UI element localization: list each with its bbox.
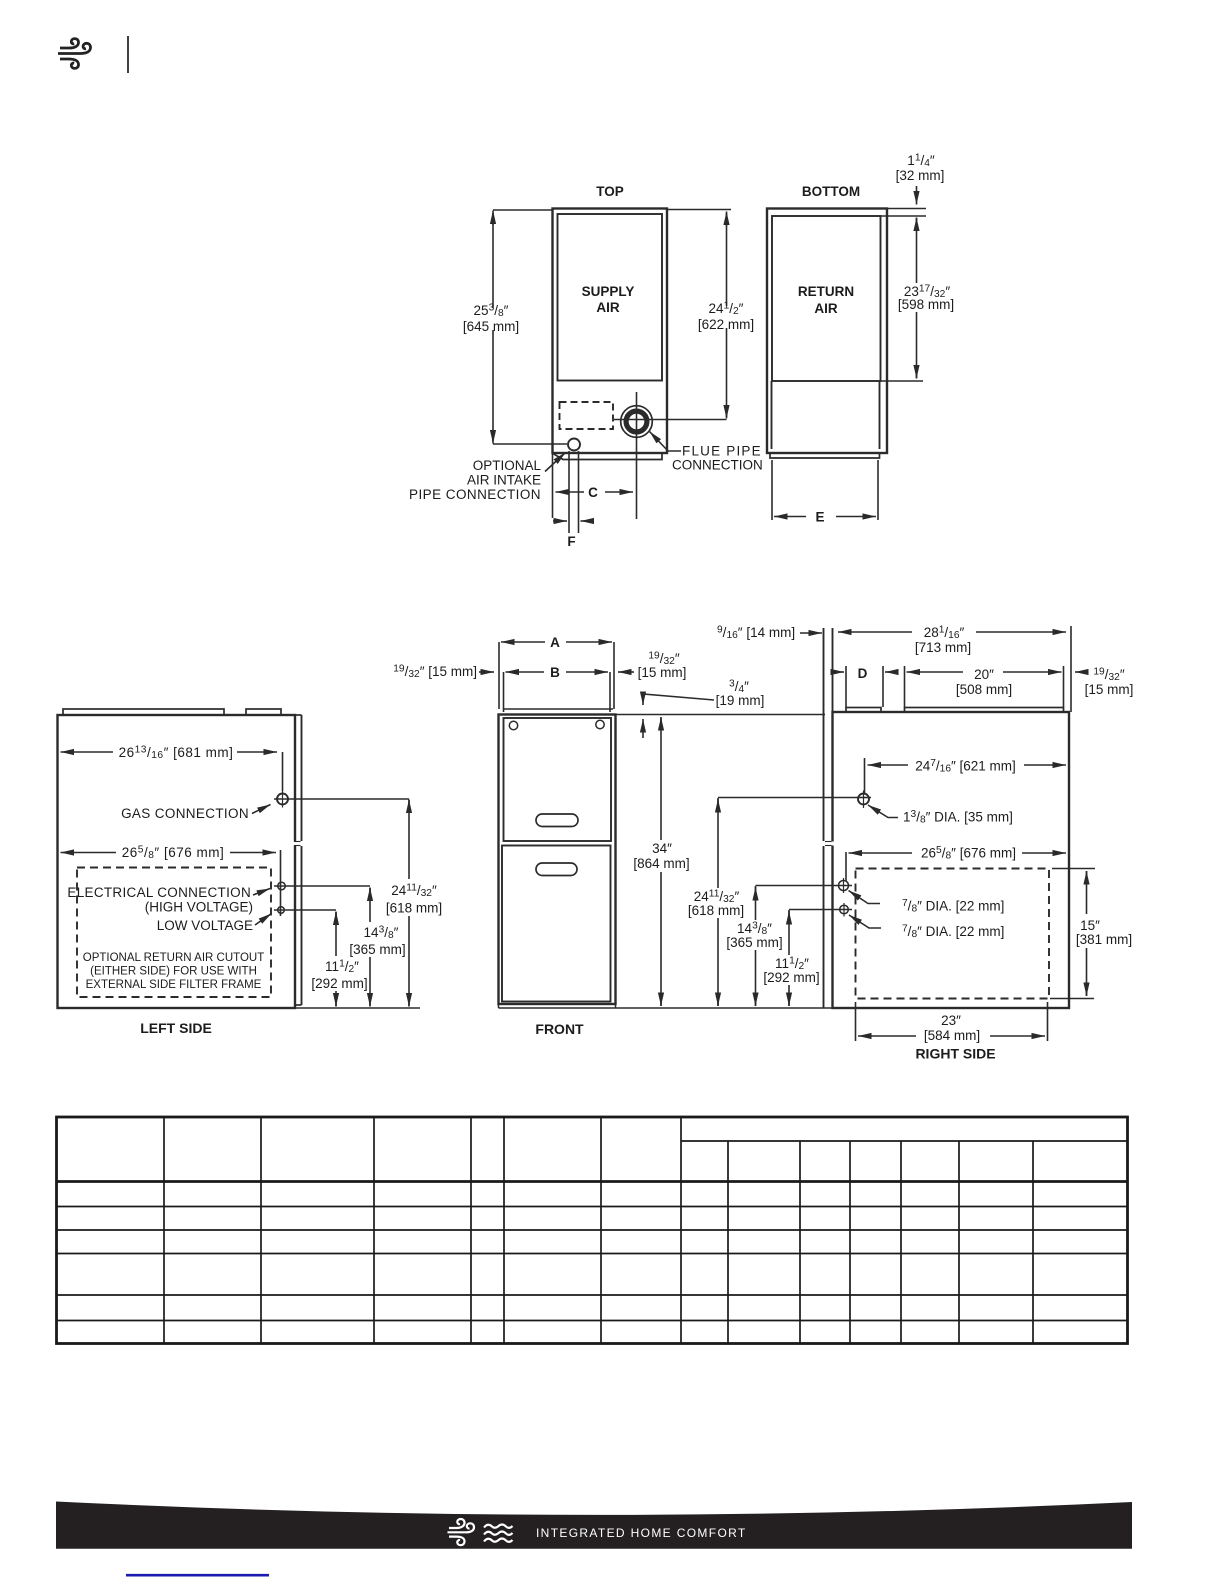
dim 23 17/32 ticks: [887, 208, 926, 210]
svg-text:PIPE CONNECTION: PIPE CONNECTION: [409, 487, 541, 502]
dim C: [556, 491, 585, 493]
svg-text:[381 mm]: [381 mm]: [1076, 932, 1132, 947]
right side cabinet outline: [833, 712, 1070, 1008]
svg-text:23″: 23″: [941, 1013, 961, 1028]
svg-text:281/16″: 281/16″: [924, 625, 965, 642]
left side top tab 1: [63, 709, 224, 715]
dim 34: [660, 717, 662, 730]
left side cabinet outline: [58, 715, 296, 1008]
svg-text:F: F: [567, 534, 575, 549]
front panel screw right: [596, 720, 604, 728]
low voltage hole circle (right view): [840, 905, 849, 914]
dim E line and arrows: [774, 516, 806, 518]
front upper door panel: [504, 718, 612, 841]
header wind logo: [58, 39, 91, 69]
svg-text:2613/16″ [681 mm]: 2613/16″ [681 mm]: [119, 745, 234, 762]
front cabinet outline: [499, 715, 616, 1005]
flue pipe leader: [650, 432, 682, 452]
svg-text:AIR: AIR: [596, 300, 620, 315]
dim 24 11/32 (left view): [408, 800, 410, 813]
front panel screw left: [509, 721, 517, 729]
svg-text:[292 mm]: [292 mm]: [763, 970, 819, 985]
dim 14 3/8 (left view): [369, 888, 371, 900]
svg-text:253/8″: 253/8″: [474, 303, 509, 320]
svg-text:[618 mm]: [618 mm]: [688, 903, 744, 918]
lower door handle: [536, 863, 577, 876]
right view left edge extension: [832, 628, 834, 712]
upper door handle: [536, 814, 578, 827]
svg-text:FRONT: FRONT: [535, 1021, 584, 1037]
svg-text:13/8″ DIA. [35 mm]: 13/8″ DIA. [35 mm]: [903, 809, 1013, 826]
svg-text:(HIGH VOLTAGE): (HIGH VOLTAGE): [145, 900, 253, 915]
svg-text:B: B: [550, 665, 560, 680]
svg-text:BOTTOM: BOTTOM: [802, 184, 860, 199]
right view wall joint: [829, 842, 837, 846]
footer waves icon: [484, 1525, 513, 1542]
header divider rule: [127, 36, 129, 73]
right side top tab small: [846, 708, 881, 713]
svg-text:CONNECTION: CONNECTION: [672, 458, 763, 473]
top view cabinet outline: [553, 209, 668, 454]
svg-text:[584 mm]: [584 mm]: [924, 1028, 980, 1043]
electrical hole circle (right view): [839, 881, 849, 891]
svg-text:[618 mm]: [618 mm]: [386, 901, 442, 916]
svg-text:[15 mm]: [15 mm]: [1085, 682, 1134, 697]
svg-text:7/8″ DIA. [22 mm]: 7/8″ DIA. [22 mm]: [902, 898, 1004, 915]
dim 26 5/8 extension: [280, 850, 282, 916]
dim 14 3/8 (front): [756, 885, 853, 887]
left side outer wall line: [301, 715, 303, 841]
front bottom baseline: [499, 1007, 1070, 1009]
dim 26 5/8 line: [61, 852, 117, 854]
left side wall joint: [293, 842, 304, 846]
svg-text:AIR: AIR: [814, 301, 838, 316]
table row rules: [57, 1206, 1128, 1208]
top surface line to right view: [616, 714, 826, 716]
svg-text:[598 mm]: [598 mm]: [898, 297, 954, 312]
flue pipe connection outer circle: [621, 406, 653, 438]
front cap line: [504, 708, 613, 710]
table sub column rules: [727, 1141, 729, 1344]
footer blue rule: [126, 1574, 269, 1577]
gas connection line to dim: [274, 798, 409, 800]
dim 26 13/16 line: [61, 751, 114, 753]
dim 24 1/2 tick: [667, 209, 731, 211]
low voltage line: [274, 909, 336, 911]
gas connection leader: [252, 805, 271, 814]
svg-text:[292 mm]: [292 mm]: [311, 976, 367, 991]
dim A extensions: [498, 642, 500, 709]
gas hole circle (right view): [858, 794, 869, 805]
dim 25 3/8 ticks: [493, 209, 552, 211]
flue vertical centerline: [636, 392, 638, 519]
dim 20: [907, 671, 964, 673]
svg-text:[713 mm]: [713 mm]: [915, 640, 971, 655]
dim 26 5/8 (right view): [849, 852, 913, 854]
dim 15 ticks: [1052, 868, 1095, 870]
svg-text:265/8″ [676 mm]: 265/8″ [676 mm]: [122, 845, 224, 862]
svg-text:[15 mm]: [15 mm]: [638, 665, 687, 680]
dim 26 13/16 extension: [282, 752, 284, 791]
front lower door panel: [502, 846, 611, 1002]
gas hole leader: [868, 805, 898, 818]
dim B extensions: [503, 672, 505, 712]
electrical hole leader: [849, 891, 881, 904]
svg-text:INTEGRATED HOME COMFORT: INTEGRATED HOME COMFORT: [536, 1526, 747, 1540]
svg-text:34″: 34″: [652, 841, 672, 856]
electrical leader: [253, 889, 270, 896]
svg-text:19/32″: 19/32″: [1093, 667, 1124, 684]
left side top tab 2: [246, 709, 281, 715]
dim 11 1/2 (front): [789, 909, 852, 911]
electrical connection circle: [278, 882, 286, 890]
low voltage leader: [255, 914, 272, 926]
svg-text:20″: 20″: [974, 667, 994, 682]
right view front wall line: [823, 628, 825, 841]
svg-text:7/8″ DIA. [22 mm]: 7/8″ DIA. [22 mm]: [902, 924, 1004, 941]
left side top edge extension: [295, 714, 302, 716]
specification table: [57, 1117, 1128, 1344]
svg-text:AIR INTAKE: AIR INTAKE: [467, 473, 541, 488]
svg-text:C: C: [588, 485, 598, 500]
svg-text:E: E: [815, 510, 824, 525]
low voltage hole leader: [849, 915, 881, 928]
svg-text:LOW VOLTAGE: LOW VOLTAGE: [157, 918, 253, 933]
dim 3/4 leader and arrows: [643, 694, 714, 705]
svg-text:[32 mm]: [32 mm]: [896, 168, 945, 183]
svg-text:[864 mm]: [864 mm]: [633, 856, 689, 871]
svg-text:D: D: [858, 666, 868, 681]
left view baseline: [295, 1007, 420, 1009]
electrical connection line: [274, 885, 370, 887]
air intake leader: [545, 453, 566, 472]
bottom view lower panel lines: [771, 381, 773, 449]
svg-text:19/32″ [15 mm]: 19/32″ [15 mm]: [393, 664, 477, 681]
svg-text:EXTERNAL SIDE FILTER FRAME: EXTERNAL SIDE FILTER FRAME: [86, 979, 262, 991]
svg-text:GAS CONNECTION: GAS CONNECTION: [121, 806, 249, 821]
svg-text:LEFT SIDE: LEFT SIDE: [140, 1020, 212, 1036]
svg-text:[645 mm]: [645 mm]: [463, 319, 519, 334]
svg-text:A: A: [550, 635, 560, 650]
bottom view lip: [770, 453, 880, 458]
svg-text:[19 mm]: [19 mm]: [716, 693, 765, 708]
dim A: [501, 641, 545, 643]
dim 23 extensions: [855, 1002, 857, 1041]
svg-text:OPTIONAL: OPTIONAL: [473, 458, 542, 473]
flue horizontal centerline: [614, 419, 727, 421]
left side dashed cutout: [77, 868, 271, 998]
right side top tab large: [905, 708, 1064, 713]
svg-text:241/2″: 241/2″: [709, 301, 744, 318]
dim 28 1/16 right extension: [1070, 626, 1072, 712]
svg-text:(EITHER SIDE) FOR USE WITH: (EITHER SIDE) FOR USE WITH: [90, 966, 257, 978]
footer bar: [56, 1502, 1132, 1549]
bottom view return-air opening: [772, 216, 881, 381]
svg-text:[622 mm]: [622 mm]: [698, 317, 754, 332]
table main column rules: [163, 1117, 165, 1344]
gas connection circle: [277, 794, 288, 805]
dim 24 1/2 vertical line: [726, 213, 728, 306]
svg-text:RIGHT SIDE: RIGHT SIDE: [915, 1046, 995, 1062]
svg-text:15″: 15″: [1080, 918, 1100, 933]
svg-text:247/16″ [621 mm]: 247/16″ [621 mm]: [915, 758, 1016, 775]
svg-text:SUPPLY: SUPPLY: [582, 284, 635, 299]
dim F arrows: [553, 520, 567, 522]
top view dashed knockout: [560, 402, 614, 429]
dim B: [506, 671, 545, 673]
footer wind icon: [448, 1519, 475, 1545]
dim F extension lines: [568, 451, 570, 533]
svg-text:OPTIONAL RETURN AIR CUTOUT: OPTIONAL RETURN AIR CUTOUT: [83, 952, 264, 964]
svg-text:9/16″ [14 mm]: 9/16″ [14 mm]: [717, 625, 795, 642]
svg-text:111/2″: 111/2″: [325, 959, 359, 976]
table header bottom rule: [57, 1180, 1128, 1183]
dim 23: [858, 1035, 916, 1037]
low voltage circle: [278, 907, 285, 914]
table span split rule: [681, 1140, 1128, 1142]
dim 1 1/4 arrow: [916, 186, 918, 205]
right side dashed cutout: [856, 869, 1050, 999]
svg-text:[365 mm]: [365 mm]: [349, 942, 405, 957]
dim 11 1/2 (left view): [335, 912, 337, 924]
svg-text:FLUE PIPE: FLUE PIPE: [682, 444, 762, 459]
svg-text:[365 mm]: [365 mm]: [726, 935, 782, 950]
dim 23 17/32 vertical line: [916, 218, 918, 232]
dim E extension lines: [771, 460, 773, 520]
dim 15: [1086, 871, 1088, 883]
top view supply-air opening: [558, 214, 663, 381]
svg-text:ELECTRICAL CONNECTION: ELECTRICAL CONNECTION: [67, 885, 251, 900]
top view bottom lip: [553, 454, 662, 460]
bottom view cabinet outline: [767, 209, 887, 454]
svg-text:RETURN: RETURN: [798, 284, 854, 299]
table outer border: [57, 1117, 1128, 1344]
optional air intake circle: [568, 439, 580, 451]
dim 24 11/32 (front): [718, 797, 871, 799]
dim 19/32 right label: [1075, 671, 1087, 673]
svg-text:[508 mm]: [508 mm]: [956, 682, 1012, 697]
dim 25 3/8 vertical line: [492, 213, 494, 308]
top view left edge extension: [552, 453, 554, 518]
dim 19/32 right of B: [618, 671, 634, 673]
svg-text:2411/32″: 2411/32″: [391, 883, 437, 900]
dim 24 7/16: [868, 764, 909, 766]
dim 28 1/16: [838, 631, 912, 633]
svg-text:TOP: TOP: [596, 184, 624, 199]
svg-text:11/4″: 11/4″: [907, 153, 935, 170]
svg-text:143/8″: 143/8″: [364, 925, 399, 942]
flue pipe connection ring: [626, 411, 647, 432]
svg-text:265/8″ [676 mm]: 265/8″ [676 mm]: [921, 845, 1016, 862]
